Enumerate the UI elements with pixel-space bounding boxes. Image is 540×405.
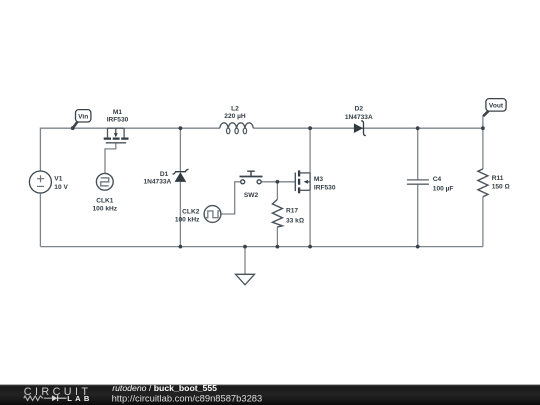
M1 bulk arrow — [115, 128, 117, 133]
resistor R17 — [272, 199, 282, 227]
wire M3 drain to top rail — [309, 128, 311, 173]
svg-text:150 Ω: 150 Ω — [492, 184, 510, 191]
svg-text:IRF530: IRF530 — [314, 185, 336, 192]
wire ground stub — [244, 247, 246, 275]
M1 body bars — [104, 137, 129, 139]
svg-text:10 V: 10 V — [54, 184, 68, 191]
resistor R11 — [478, 169, 488, 197]
svg-text:220 µH: 220 µH — [224, 113, 246, 120]
node junction dot R17 bottom — [276, 245, 280, 249]
wire top rail L2 to D2 and on to Vout corner — [253, 127, 483, 129]
node junction dot C4 bottom — [416, 245, 420, 249]
svg-text:http://circuitlab.com/c89n8587: http://circuitlab.com/c89n8587b3283 — [112, 392, 263, 403]
voltage flag Vin — [73, 110, 91, 128]
svg-text:R17: R17 — [286, 207, 298, 214]
svg-text:1N4733A: 1N4733A — [143, 178, 171, 185]
node junction dot M3 source bottom — [308, 245, 312, 249]
svg-text:1N4733A: 1N4733A — [345, 114, 373, 121]
wire top rail left (V1 top to M1 drain) — [40, 128, 107, 171]
node junction dot M3 drain top — [308, 126, 312, 130]
clock source CLK1 — [96, 173, 113, 190]
svg-text:100 kHz: 100 kHz — [93, 205, 118, 212]
svg-text:33 kΩ: 33 kΩ — [286, 217, 304, 224]
M3 bulk arrow — [308, 181, 310, 183]
wire R17 bottom lead — [276, 227, 278, 247]
wire M1 gate to CLK1 — [105, 143, 116, 174]
M1 connector rail — [108, 127, 125, 129]
logo resistor squiggle — [24, 396, 43, 401]
logo diode glyph — [52, 395, 58, 401]
svg-text:L2: L2 — [231, 106, 239, 113]
wire top rail M1 source to L2 — [124, 127, 220, 129]
wire Vout vertical to R11 — [482, 116, 484, 169]
wire M3 source to bottom rail — [309, 190, 311, 246]
svg-text:SW2: SW2 — [244, 192, 259, 199]
svg-text:D2: D2 — [355, 105, 364, 112]
svg-text:Vout: Vout — [489, 102, 504, 109]
svg-text:IRF530: IRF530 — [107, 116, 129, 123]
M1 gate bar — [106, 142, 126, 144]
svg-text:V1: V1 — [54, 176, 62, 183]
svg-text:R11: R11 — [492, 175, 504, 182]
wire SW2 to M3 gate — [261, 181, 295, 183]
M3 gate bar — [294, 173, 296, 192]
switch SW2 — [240, 171, 263, 184]
M3 source stub — [299, 189, 310, 191]
clock source CLK2 — [204, 206, 221, 223]
wire D1 top lead — [179, 128, 181, 172]
ground symbol — [236, 274, 255, 285]
inductor L2 — [220, 123, 254, 134]
node junction dot C4 top — [416, 126, 420, 130]
svg-text:CLK2: CLK2 — [182, 208, 200, 215]
svg-text:M3: M3 — [314, 176, 323, 183]
wire C4 bottom lead — [417, 184, 419, 246]
wire CLK2 to SW2 — [221, 182, 241, 214]
svg-text:100 kHz: 100 kHz — [175, 217, 200, 224]
wire R11 bottom lead — [482, 197, 484, 247]
wire bottom rail — [40, 246, 483, 248]
M1 drain stub — [107, 128, 109, 137]
svg-text:LAB: LAB — [67, 394, 92, 403]
node junction dot D1 bottom — [179, 245, 183, 249]
zener diode D2 — [354, 121, 366, 136]
svg-text:100 µF: 100 µF — [433, 185, 454, 192]
zener diode D1 — [173, 169, 189, 182]
M3 right connector — [309, 173, 311, 190]
M3 body bars — [298, 170, 300, 193]
node junction dot Vout corner — [481, 126, 485, 130]
svg-text:C4: C4 — [433, 176, 442, 183]
svg-text:M1: M1 — [113, 109, 122, 116]
node junction dot D1 top — [179, 126, 183, 130]
svg-text:D1: D1 — [160, 171, 169, 178]
svg-text:CLK1: CLK1 — [96, 198, 114, 205]
node junction dot ground tap — [243, 245, 247, 249]
wire V1 bottom lead — [39, 193, 41, 247]
capacitor C4 — [407, 180, 429, 184]
node junction dot Vin tap — [71, 126, 75, 130]
M1 source stub — [123, 128, 125, 137]
transistor M1 (PMOS pass, rotated) — [104, 128, 129, 143]
wire C4 top lead — [417, 128, 419, 180]
voltage source V1 — [29, 171, 51, 193]
wire D1 bottom lead — [179, 182, 181, 247]
svg-text:Vin: Vin — [78, 113, 88, 120]
voltage flag Vout — [483, 99, 506, 117]
node junction dot SW2-R17-M3 gate — [276, 180, 280, 184]
M3 drain stub — [299, 172, 310, 174]
transistor M3 — [295, 170, 310, 193]
wire R17 top lead — [276, 182, 278, 200]
